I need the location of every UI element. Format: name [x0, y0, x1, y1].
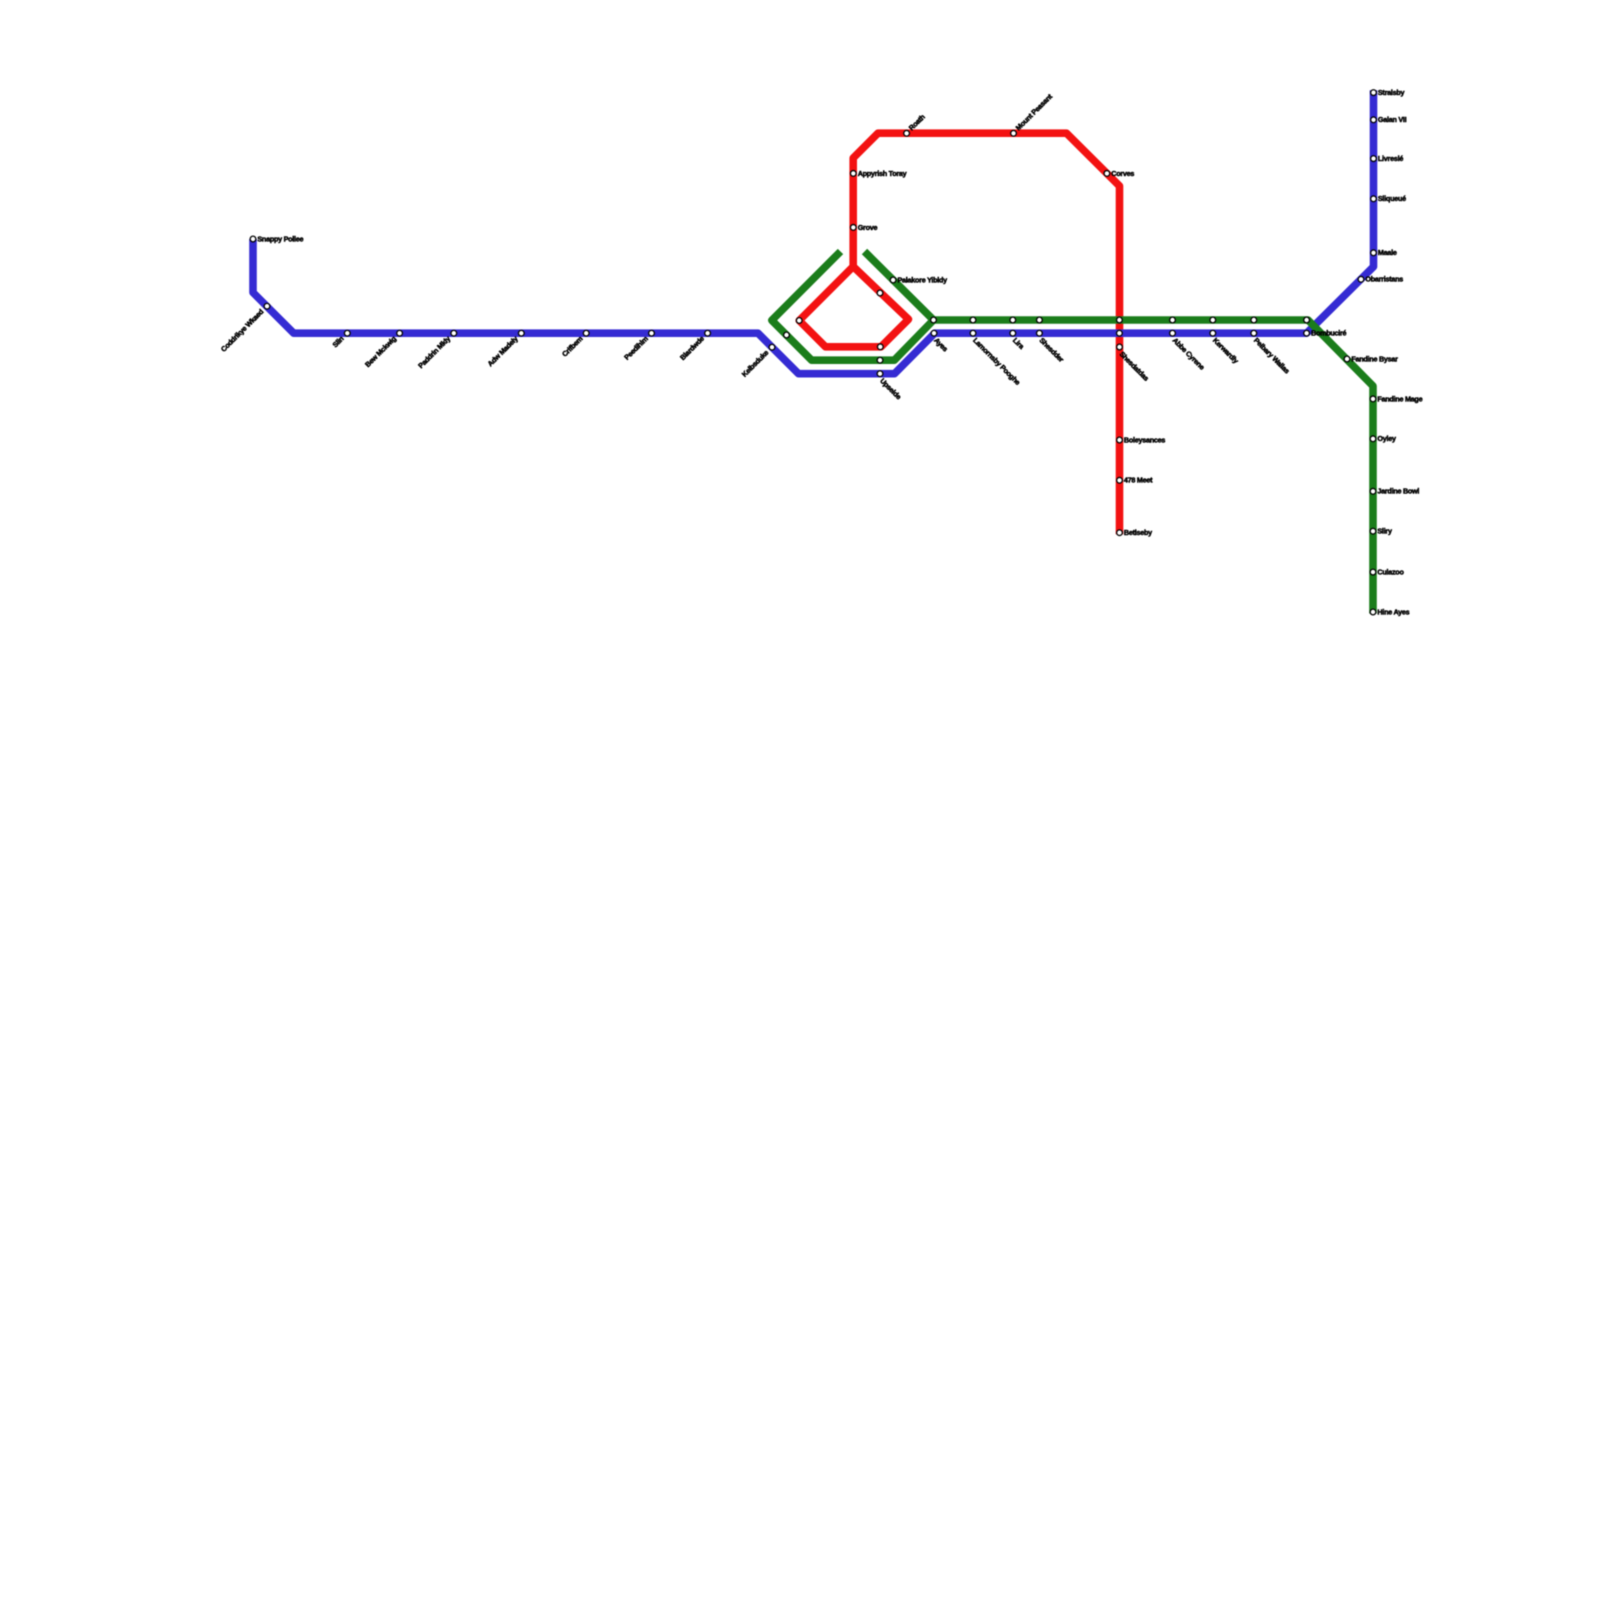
svg-text:Culazoo: Culazoo — [1377, 568, 1404, 577]
svg-text:Appyrish Toray: Appyrish Toray — [858, 169, 907, 178]
svg-text:Stralsby: Stralsby — [1378, 88, 1405, 97]
svg-text:Sliry: Sliry — [1377, 527, 1392, 536]
svg-text:478 Meet: 478 Meet — [1124, 476, 1153, 485]
svg-text:Maale: Maale — [1378, 248, 1397, 257]
svg-text:Oyley: Oyley — [1377, 434, 1396, 443]
svg-text:Betlseby: Betlseby — [1124, 528, 1152, 537]
svg-text:Fandine Bysar: Fandine Bysar — [1351, 354, 1398, 363]
svg-text:Palakore Yibldy: Palakore Yibldy — [898, 275, 948, 284]
svg-text:Galan VII: Galan VII — [1378, 115, 1407, 124]
svg-text:Jardine Bowl: Jardine Bowl — [1377, 487, 1419, 496]
svg-text:Obarristans: Obarristans — [1365, 275, 1403, 284]
svg-text:Bombuciré: Bombuciré — [1311, 329, 1347, 338]
svg-text:Sliqueué: Sliqueué — [1378, 194, 1406, 203]
svg-text:Fandine Mage: Fandine Mage — [1377, 394, 1422, 403]
svg-text:Corves: Corves — [1111, 169, 1134, 178]
svg-text:Snappy Pollee: Snappy Pollee — [257, 234, 303, 243]
svg-text:Grove: Grove — [858, 223, 878, 232]
svg-text:Boleysances: Boleysances — [1124, 435, 1165, 444]
svg-text:Livreslé: Livreslé — [1378, 154, 1403, 163]
svg-text:Hine Ayes: Hine Ayes — [1377, 607, 1409, 616]
